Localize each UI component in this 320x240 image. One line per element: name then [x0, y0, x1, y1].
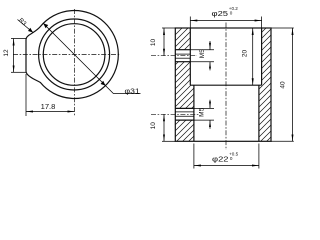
svg-text:φ31: φ31 — [125, 86, 140, 95]
svg-text:M5: M5 — [199, 107, 206, 116]
svg-text:φ25: φ25 — [212, 11, 229, 18]
svg-text:17.8: 17.8 — [41, 104, 56, 111]
svg-text:40: 40 — [280, 81, 287, 89]
svg-text:12: 12 — [3, 49, 10, 57]
svg-text:20: 20 — [242, 50, 249, 58]
svg-text:M5: M5 — [199, 49, 206, 58]
svg-text:φ22: φ22 — [212, 157, 229, 164]
svg-text:0: 0 — [230, 10, 233, 15]
svg-text:0: 0 — [230, 156, 233, 161]
svg-text:10: 10 — [150, 122, 157, 130]
svg-text:10: 10 — [150, 39, 157, 47]
